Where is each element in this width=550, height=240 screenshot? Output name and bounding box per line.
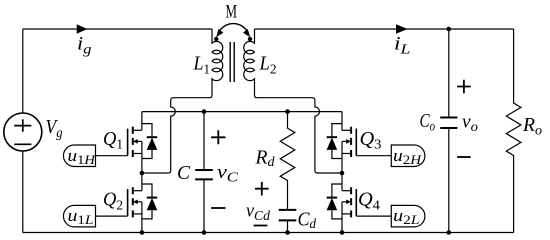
polarity dot L2 [248, 37, 252, 41]
resistor Rd [280, 112, 295, 210]
svg-text:ig: ig [77, 35, 92, 58]
wire left vertical [22, 29, 24, 233]
node C bottom [202, 230, 207, 235]
wire gate Q1 [96, 155, 128, 157]
wire top-left rail [23, 28, 212, 30]
svg-text:u1H: u1H [68, 146, 96, 167]
minus sign vC [211, 207, 225, 209]
node midpoint right [340, 171, 345, 176]
inductor L2 [244, 29, 255, 95]
svg-text:Co: Co [420, 111, 436, 135]
svg-text:Q2: Q2 [103, 190, 123, 214]
wire Q1 source to midpoint [141, 159, 143, 173]
minus sign vCd [254, 225, 268, 227]
transistor Q2 [128, 172, 158, 219]
wire top-right rail [255, 28, 514, 30]
svg-text:vC: vC [217, 163, 239, 186]
transistor Q3 [327, 112, 357, 159]
plus sign vo [457, 80, 471, 94]
node Cd bottom [285, 230, 290, 235]
wire Q3 source to midpoint [341, 159, 343, 173]
svg-text:L1: L1 [193, 54, 210, 78]
arrow ig [77, 24, 88, 34]
node Co top [447, 27, 452, 32]
wire phase right (L2 bottom to bridge midpoint, hops over rail) [255, 95, 343, 173]
svg-text:Q4: Q4 [358, 190, 380, 214]
wire mid rail [142, 111, 342, 113]
svg-text:Vg: Vg [46, 117, 63, 141]
plus sign vCd [255, 182, 269, 196]
inductor L1 [212, 29, 223, 95]
svg-text:iL: iL [394, 35, 411, 58]
svg-text:M: M [226, 2, 238, 23]
Vg plus sign [14, 119, 31, 131]
svg-text:Cd: Cd [298, 210, 317, 233]
node Q2 bottom [140, 230, 145, 235]
transistor Q1 [128, 112, 158, 159]
arrow iL [396, 24, 408, 34]
svg-text:u2H: u2H [393, 146, 422, 167]
svg-text:vo: vo [462, 113, 478, 136]
plus sign vC [211, 130, 225, 144]
node midpoint left [140, 171, 145, 176]
gate box u2H [391, 145, 425, 167]
node Q4 bottom [340, 230, 345, 235]
svg-text:C: C [177, 163, 191, 184]
node Co bottom [447, 230, 452, 235]
svg-text:u2L: u2L [393, 206, 420, 227]
wire gate Q3 [356, 155, 391, 157]
wire gate Q2 [96, 215, 128, 217]
wire gate Q4 [356, 215, 391, 217]
svg-text:Rd: Rd [254, 148, 275, 171]
capacitor Co [448, 29, 450, 233]
Vg minus sign [14, 143, 31, 145]
wire Q4 source to bottom rail [341, 219, 343, 233]
svg-text:u1L: u1L [68, 206, 94, 227]
node Rd top [285, 109, 290, 114]
capacitor C [203, 112, 205, 233]
gate box u1L [63, 205, 95, 227]
wire phase left (L1 bottom to bridge midpoint, hops over rail) [142, 95, 212, 173]
svg-text:L2: L2 [259, 54, 277, 78]
polarity dot L1 [214, 37, 218, 41]
voltage source Vg circle [4, 113, 42, 151]
capacitor Cd [279, 210, 297, 221]
gate box u1H [63, 145, 95, 167]
transformer core [230, 42, 234, 82]
resistor Ro [506, 29, 521, 233]
svg-text:Ro: Ro [522, 115, 542, 139]
wire bottom rail [23, 232, 514, 234]
mutual inductance arrow [219, 24, 248, 33]
wire Q2 source to bottom rail [141, 219, 143, 233]
svg-text:Q1: Q1 [103, 129, 123, 153]
node C top [202, 109, 207, 114]
transistor Q4 [327, 172, 357, 219]
svg-text:Q3: Q3 [360, 129, 382, 153]
minus sign vo [457, 156, 471, 158]
gate box u2L [391, 205, 425, 227]
svg-text:vCd: vCd [246, 202, 271, 225]
